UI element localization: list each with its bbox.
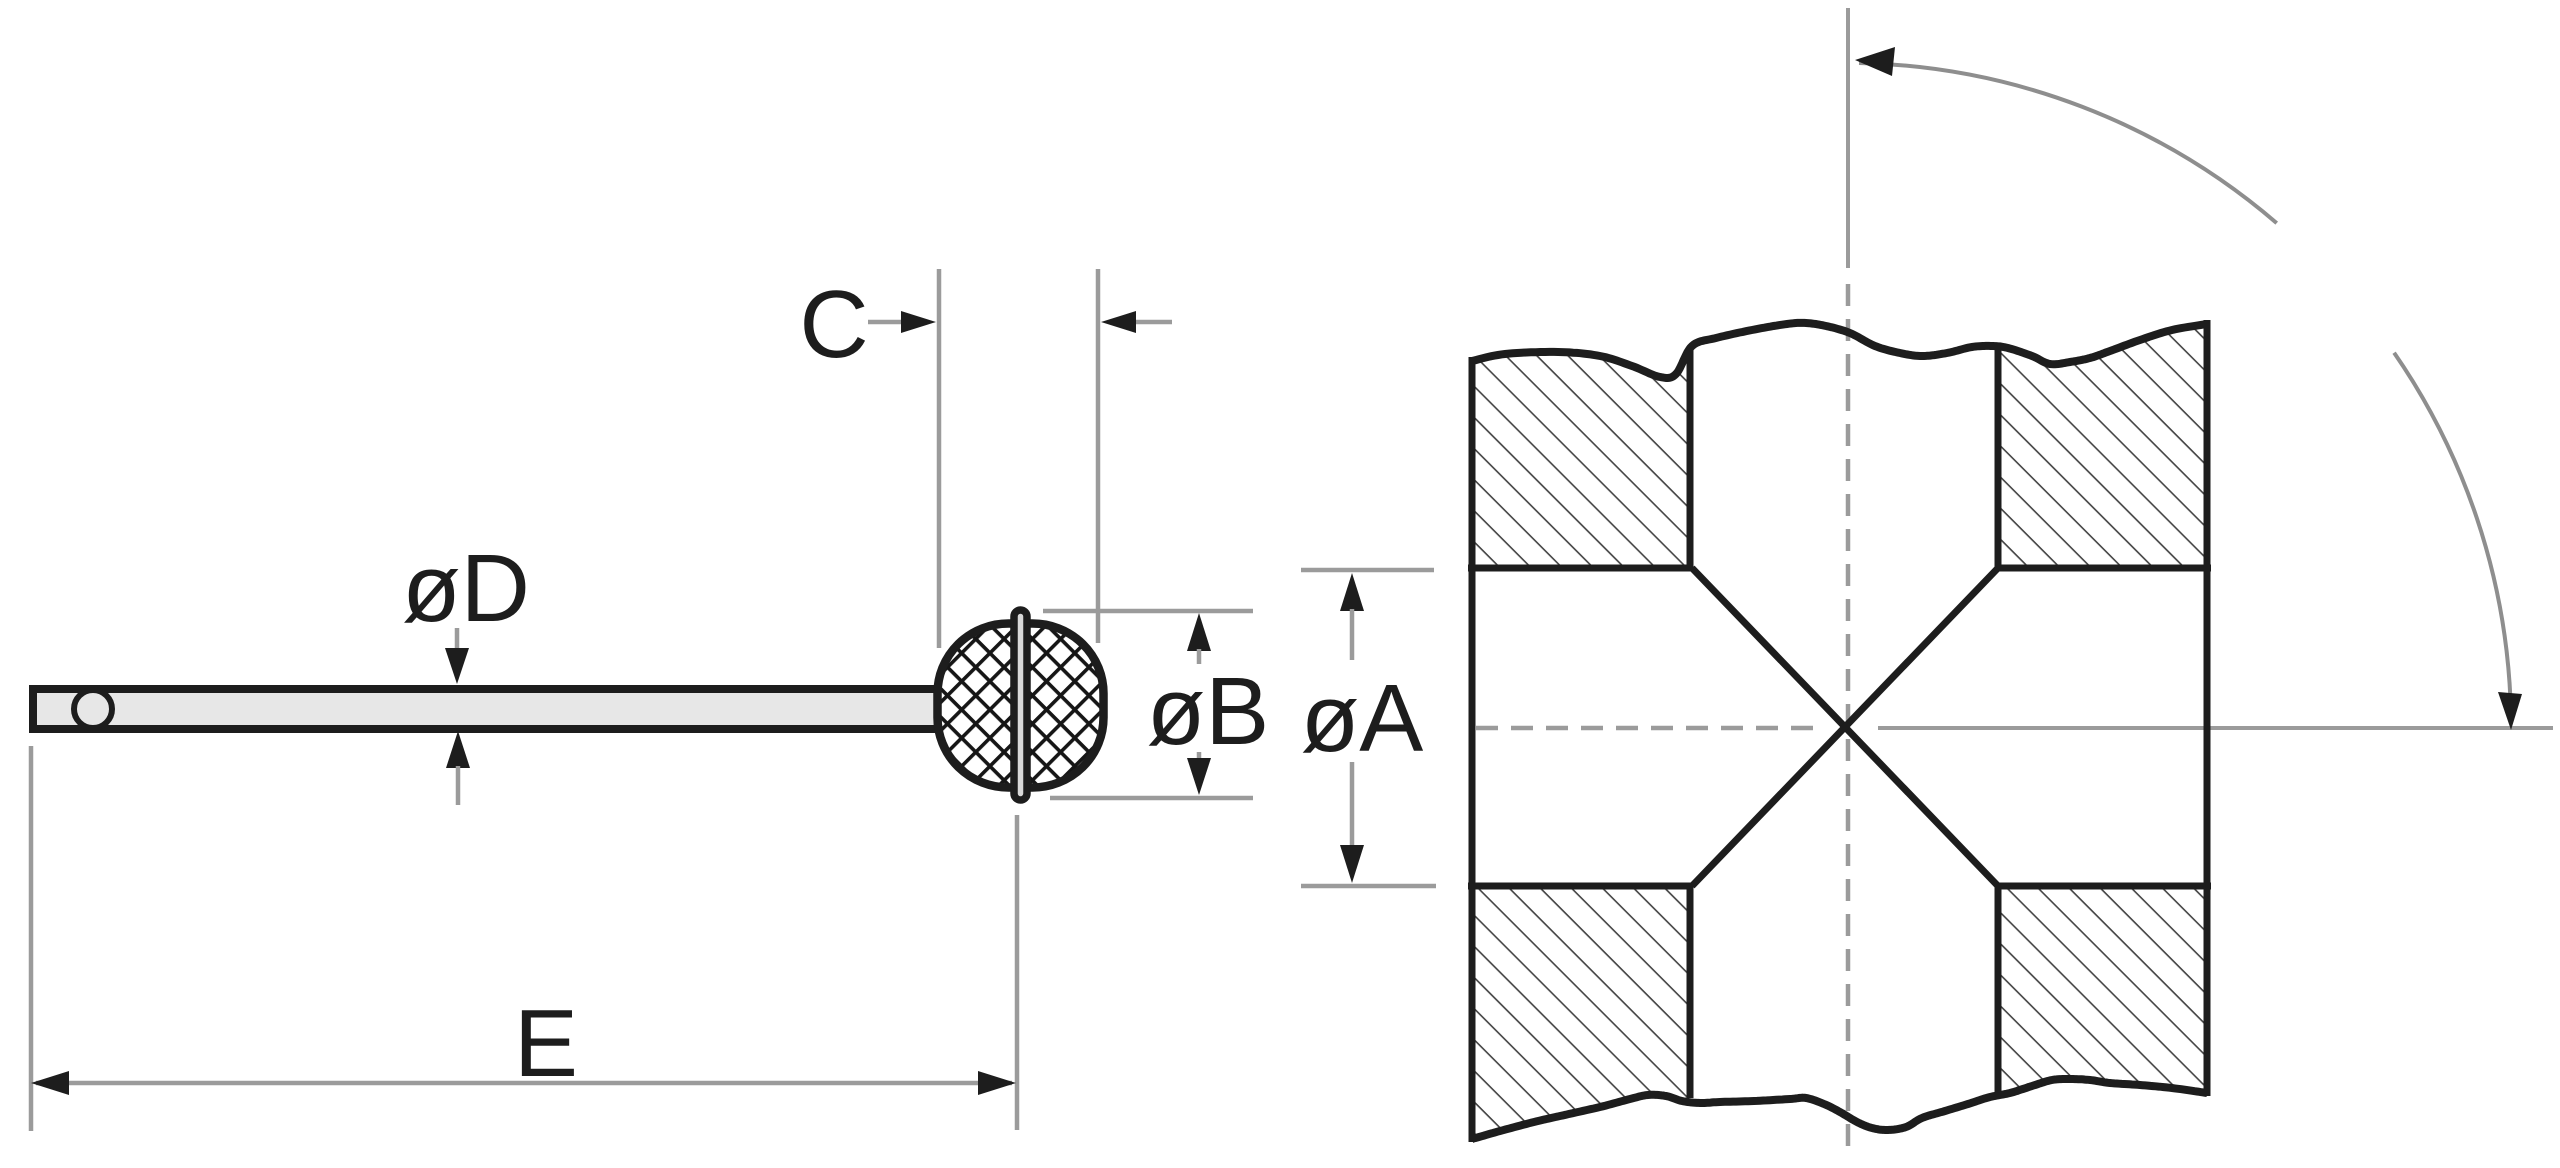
svg-text:øD: øD — [402, 535, 530, 642]
svg-text:C: C — [799, 271, 868, 378]
svg-text:øB: øB — [1147, 658, 1270, 765]
svg-text:øA: øA — [1301, 665, 1424, 772]
svg-text:E: E — [514, 990, 578, 1097]
